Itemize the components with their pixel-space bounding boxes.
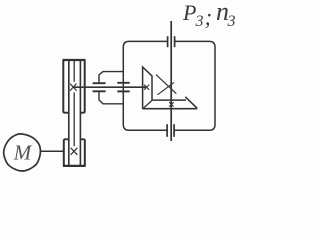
input shaft (upper pulley to pinion) — [74, 86, 146, 88]
pulley large (driven, upper) — [63, 60, 86, 113]
output shaft (vertical) — [170, 21, 172, 141]
motor M — [4, 134, 41, 171]
motor shaft — [41, 150, 64, 152]
gearbox housing — [123, 41, 215, 130]
svg-text:3: 3 — [195, 13, 204, 30]
shaft mark x (gear hub) — [169, 102, 173, 106]
bevel pinion (on input shaft) — [143, 67, 152, 109]
coupling (between belt drive and gearbox input) — [93, 72, 130, 104]
label P3 ; n3 — [182, 0, 236, 30]
shaft mark x (pinion hub) — [144, 85, 149, 90]
shaft mark x (upper pulley hub) — [70, 84, 77, 91]
belt strands — [69, 60, 81, 165]
gear mesh cross — [156, 75, 176, 95]
bevel gear wheel (on output shaft) — [143, 97, 198, 109]
svg-text:;: ; — [205, 5, 213, 30]
svg-text:M: M — [13, 141, 33, 165]
svg-text:3: 3 — [227, 13, 236, 30]
bearing (output shaft, bottom wall) — [167, 124, 174, 137]
pulley small (driver, lower, on motor shaft) — [63, 139, 86, 166]
bearing (output shaft, top wall) — [168, 36, 175, 47]
shaft mark x (lower pulley hub) — [71, 148, 78, 155]
belt centerline — [73, 60, 75, 146]
svg-text:P: P — [182, 0, 196, 25]
